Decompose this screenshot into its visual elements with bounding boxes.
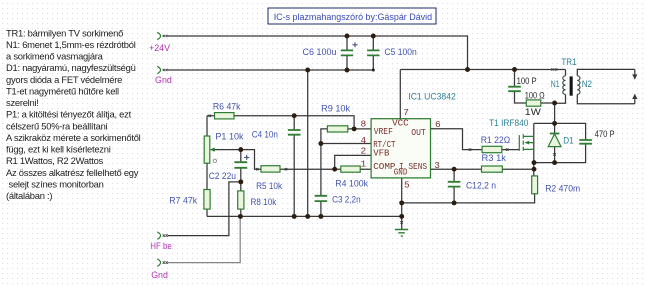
- wire IC pin7 drop: [399, 70, 401, 119]
- svg-text:HF be: HF be: [150, 241, 172, 252]
- svg-text:6: 6: [435, 119, 441, 130]
- capacitor C6: [303, 36, 358, 70]
- transformer TR1: [551, 57, 635, 104]
- resistor R2: [532, 176, 581, 195]
- svg-text:Az összes alkatrész fellelhető: Az összes alkatrész fellelhető egy: [6, 167, 139, 178]
- spark gap electrodes: [632, 69, 637, 103]
- wire FET column: [533, 123, 535, 175]
- svg-text:T1 IRF840: T1 IRF840: [489, 118, 528, 129]
- svg-text:R1 1Wattos, R2 2Wattos: R1 1Wattos, R2 2Wattos: [6, 155, 104, 166]
- svg-text:selejt színes monitorban: selejt színes monitorban: [9, 178, 104, 189]
- junction 100P top: [512, 67, 517, 72]
- svg-text:a sorkimenő vasmagjára: a sorkimenő vasmagjára: [6, 51, 104, 62]
- svg-text:R2 470m: R2 470m: [545, 184, 580, 195]
- svg-text:R3 1k: R3 1k: [482, 153, 507, 164]
- junction RT/CT: [318, 141, 323, 146]
- junction pin8/R9: [352, 126, 357, 131]
- svg-text:5: 5: [404, 180, 410, 191]
- svg-text:VREF: VREF: [374, 126, 393, 137]
- wire D1 column: [554, 103, 556, 163]
- junction pin5 rail B: [399, 214, 404, 219]
- svg-text:C3 2,2n: C3 2,2n: [332, 194, 361, 205]
- wire C2/R8 column: [240, 150, 242, 217]
- capacitor C4: [252, 116, 301, 217]
- wire R4 row: [335, 168, 371, 170]
- svg-text:N2: N2: [582, 79, 592, 90]
- junction C4 top: [292, 113, 297, 118]
- wire pin8 stub: [354, 128, 371, 130]
- wire Gnd bottom path: [168, 216, 240, 262]
- resistor R8: [238, 191, 277, 209]
- junction D1 anode: [552, 160, 557, 165]
- svg-text:470 P: 470 P: [595, 129, 615, 140]
- svg-text:függ, ezt ki kell kísérletezni: függ, ezt ki kell kísérletezni: [6, 144, 111, 155]
- junction +24V corner: [465, 67, 470, 72]
- junction R8 bottom: [238, 214, 243, 219]
- svg-text:C6 100u: C6 100u: [303, 47, 337, 58]
- svg-text:4: 4: [361, 135, 367, 146]
- junction C3 bottom: [318, 214, 323, 219]
- svg-text:Gnd: Gnd: [155, 75, 172, 86]
- resistor R1: [481, 135, 511, 153]
- connector HF be: [150, 232, 172, 252]
- resistor R7: [169, 190, 210, 210]
- transistor T1 IRF840: [489, 118, 534, 151]
- junction C4 bottom: [292, 214, 297, 219]
- wire P1/R7 column: [206, 116, 208, 217]
- junction C5 bottom: [372, 69, 375, 72]
- junction pin3/C1/R3: [452, 167, 457, 172]
- svg-text:(általában :): (általában :): [6, 190, 52, 201]
- svg-text:1: 1: [361, 159, 367, 170]
- svg-text:1W: 1W: [525, 107, 541, 118]
- svg-text:célszerű 50%-ra beállítani: célszerű 50%-ra beállítani: [6, 120, 108, 131]
- ground symbol: [395, 221, 408, 236]
- junction FET source/R3: [532, 167, 537, 172]
- junction C5 top: [371, 34, 376, 39]
- resistor R5: [256, 166, 282, 192]
- junction wiper: [238, 147, 243, 152]
- connector +24V: [149, 32, 171, 54]
- wire C1 column: [453, 169, 455, 203]
- svg-text:R1 22Ω: R1 22Ω: [481, 135, 511, 146]
- wire snubber 100P/100ohm: [515, 70, 555, 104]
- wire RT/CT and C3 column: [321, 144, 371, 217]
- junction TR1/100ohm: [552, 101, 557, 106]
- resistor R9: [321, 104, 350, 133]
- svg-text:R8 10k: R8 10k: [251, 197, 277, 208]
- svg-text:R9 10k: R9 10k: [321, 104, 350, 115]
- svg-text:7: 7: [403, 107, 409, 118]
- capacitor 470P: [579, 129, 614, 144]
- svg-text:VFB: VFB: [373, 147, 390, 158]
- potentiometer P1: [204, 131, 244, 163]
- svg-text:TR1: bármilyen TV sorkimenő: TR1: bármilyen TV sorkimenő: [6, 27, 123, 38]
- svg-text:C4 10n: C4 10n: [252, 129, 278, 140]
- pin connection marks: [209, 115, 509, 171]
- svg-text:COMP: COMP: [373, 161, 396, 172]
- capacitor C5: [367, 36, 417, 70]
- junction gnd drop bottom: [305, 214, 310, 219]
- capacitor C2: [209, 155, 250, 182]
- svg-text:TR1: TR1: [561, 57, 576, 68]
- svg-text:gyors dióda a FET védelmére: gyors dióda a FET védelmére: [6, 74, 122, 85]
- svg-text:GND: GND: [394, 167, 408, 178]
- junction C1 bottom: [452, 200, 457, 205]
- resistor R3: [482, 153, 507, 172]
- wire IC pin5 drop: [401, 178, 403, 229]
- wire wiper to C2: [211, 149, 241, 151]
- junction HF/C2/R8: [238, 179, 243, 184]
- op-amp IC1 UC3842 box: [371, 91, 456, 177]
- resistor 100ohm 1W: [525, 90, 545, 118]
- svg-text:C2 22u: C2 22u: [209, 171, 236, 182]
- wire VFB: [335, 155, 371, 169]
- resistor R4: [335, 166, 368, 189]
- wire bottom rail left: [207, 215, 402, 217]
- svg-text:D1: D1: [563, 136, 573, 147]
- svg-text:8: 8: [361, 118, 367, 129]
- junction pin5 rail A: [399, 200, 404, 205]
- svg-text:VCC: VCC: [392, 117, 409, 128]
- svg-text:+24V: +24V: [149, 43, 171, 54]
- junction gnd drop: [305, 68, 310, 73]
- wire ground drop: [307, 70, 309, 216]
- svg-text:P1 10k: P1 10k: [215, 131, 243, 142]
- svg-text:P1: a kitöltési tényezőt álítj: P1: a kitöltési tényezőt álítja, ezt: [6, 109, 132, 120]
- diode D1: [548, 134, 573, 156]
- wire wiper to R5 to R4 junction: [241, 150, 335, 170]
- wire +24V rail: [168, 36, 468, 70]
- svg-text:C12,2 n: C12,2 n: [466, 180, 496, 191]
- capacitor C3: [315, 194, 361, 205]
- svg-text:C5 100n: C5 100n: [384, 47, 416, 58]
- wire drain rail: [534, 123, 586, 139]
- capacitor C1: [448, 180, 496, 191]
- svg-text:D1: nagyáramú, nagyfeszültségü: D1: nagyáramú, nagyfeszültségü: [6, 62, 136, 73]
- wire source rail: [534, 144, 586, 162]
- svg-text:A szikraköz mérete a sorkimenő: A szikraköz mérete a sorkimenőtől: [6, 132, 141, 143]
- wire OUT to gate: [431, 129, 520, 150]
- svg-text:2: 2: [361, 145, 367, 156]
- svg-text:3: 3: [434, 160, 440, 171]
- svg-text:IC-s plazmahangszóró by:Gáspár: IC-s plazmahangszóró by:Gáspár Dávid: [274, 12, 432, 23]
- svg-text:N1: N1: [551, 79, 560, 90]
- svg-text:R7 47k: R7 47k: [169, 196, 197, 207]
- svg-text:N1: 6menet 1,5mm-es rézdrótból: N1: 6menet 1,5mm-es rézdrótból: [6, 39, 136, 50]
- wire R9 leads: [321, 129, 354, 144]
- wire VCC feed: [400, 69, 565, 71]
- svg-text:IC1 UC3842: IC1 UC3842: [408, 91, 456, 102]
- junction C6 top: [345, 34, 350, 39]
- svg-text:R5 10k: R5 10k: [256, 181, 282, 192]
- svg-text:Gnd: Gnd: [151, 270, 168, 281]
- connector Gnd (bottom): [151, 259, 168, 281]
- wire I SENS row: [431, 168, 535, 170]
- junction D1 top: [552, 121, 557, 126]
- wire HF be path: [168, 182, 241, 236]
- svg-text:R6 47k: R6 47k: [213, 102, 241, 113]
- capacitor 100P: [508, 76, 536, 91]
- svg-text:R4 100k: R4 100k: [335, 178, 368, 189]
- wire bottom rail right: [402, 194, 535, 203]
- connector Gnd (top): [155, 66, 172, 86]
- resistor R6: [213, 102, 241, 119]
- svg-text:szerelni!: szerelni!: [6, 97, 39, 108]
- wire VREF row: [207, 116, 354, 129]
- title box: [268, 8, 436, 24]
- junction VFB/R4/R5: [332, 167, 337, 172]
- svg-text:100 P: 100 P: [517, 76, 537, 87]
- svg-text:OUT: OUT: [411, 127, 426, 138]
- junction C6 bottom: [345, 68, 350, 73]
- notes text block: [6, 27, 141, 201]
- svg-text:T1-et nagyméretű hűtőre kell: T1-et nagyméretű hűtőre kell: [6, 85, 119, 96]
- svg-text:100 Ω: 100 Ω: [525, 90, 545, 101]
- junction source rail left: [532, 160, 537, 165]
- wire Gnd rail: [168, 69, 373, 71]
